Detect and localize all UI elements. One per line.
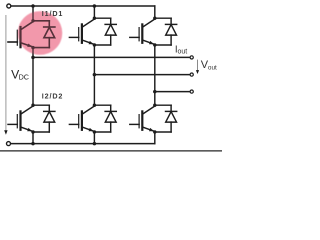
svg-text:out: out xyxy=(208,64,217,71)
svg-text:out: out xyxy=(178,49,188,56)
svg-text:I1/D1: I1/D1 xyxy=(42,9,63,18)
svg-text:DC: DC xyxy=(19,72,29,81)
svg-text:I2/D2: I2/D2 xyxy=(42,91,63,100)
